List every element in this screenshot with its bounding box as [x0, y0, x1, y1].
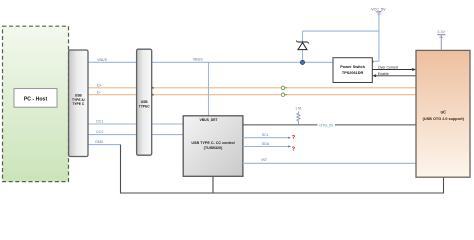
- resistor R1 1M pull-up on OTG_ID: [295, 107, 301, 125]
- net tie circle on D+: [281, 86, 287, 89]
- unresolved mark ? on SCL: [292, 135, 295, 141]
- label VBUS (left): [97, 58, 108, 62]
- svg-text:?: ?: [292, 147, 295, 153]
- uC block (USB OTG 2.0 support): [416, 50, 470, 177]
- svg-text:CC1: CC1: [96, 120, 103, 124]
- label VBUS (right): [193, 58, 204, 62]
- svg-text:(TUSB320): (TUSB320): [204, 146, 223, 150]
- net tie circle on D-: [281, 93, 287, 96]
- power symbol VCC_5V: [371, 7, 386, 61]
- label CC1: [96, 120, 103, 124]
- svg-text:GND: GND: [95, 140, 104, 144]
- wire CC2 (connector2 to TUSB320): [152, 134, 184, 136]
- label D-: [97, 90, 102, 94]
- PC - Host box: [14, 89, 57, 108]
- unresolved mark ? on SDA: [292, 147, 295, 153]
- svg-text:PC - Host: PC - Host: [24, 96, 48, 102]
- svg-text:INT: INT: [262, 158, 269, 162]
- svg-text:TYPEC: TYPEC: [139, 104, 151, 108]
- label D+: [97, 83, 102, 87]
- wire GND horizontal: [88, 144, 121, 146]
- svg-text:VBUS: VBUS: [193, 58, 204, 62]
- svg-text:SDA: SDA: [262, 142, 270, 146]
- label CC2: [96, 130, 103, 134]
- wire INT: [243, 158, 416, 163]
- wire VCC_5V branch to diode: [303, 31, 379, 62]
- pin nub D- at connector J2: [152, 94, 154, 96]
- svg-text:Over Current: Over Current: [378, 66, 398, 70]
- wire OTG_ID: [243, 122, 416, 128]
- svg-text:uC: uC: [441, 110, 447, 115]
- wire CC1: [88, 123, 137, 125]
- wire VBUS_DET vertical drop: [208, 62, 210, 116]
- svg-text:Power Switch: Power Switch: [340, 65, 365, 69]
- label GND: [95, 140, 104, 144]
- power symbol 3.3V: [437, 30, 445, 50]
- pin nub D+ at connector J2: [152, 87, 154, 89]
- svg-text:1 M: 1 M: [295, 107, 301, 111]
- svg-text:VCC_5V: VCC_5V: [371, 7, 386, 11]
- wire D-: [88, 94, 416, 96]
- diode D1 (schottky, VBUS to VCC_5V): [296, 41, 309, 50]
- wire CC1 (connector2 to TUSB320): [152, 123, 184, 125]
- PC Host enclosure (dashed green block): [3, 26, 69, 181]
- wire SDA with arrow: [243, 142, 291, 148]
- svg-text:VBUS: VBUS: [97, 58, 108, 62]
- svg-text:D+: D+: [97, 83, 102, 87]
- svg-text:(USB OTG 2.0 support): (USB OTG 2.0 support): [423, 117, 465, 121]
- svg-text:TPS2061DR: TPS2061DR: [342, 71, 364, 75]
- connector J1 USB TYPE A / TYPE C: [69, 50, 88, 157]
- svg-text:OTG_ID: OTG_ID: [319, 123, 333, 127]
- svg-text:TYPE C: TYPE C: [72, 102, 85, 106]
- svg-text:3.3V: 3.3V: [437, 30, 445, 34]
- svg-text:Enable: Enable: [378, 72, 389, 76]
- wire Over Current (to uC, arrow right): [372, 66, 416, 71]
- svg-text:D-: D-: [97, 90, 102, 94]
- svg-text:USB TYPE C- CC control: USB TYPE C- CC control: [191, 141, 234, 145]
- pin nub power switch VCC: [372, 61, 374, 63]
- wire GND bus (down, across bottom, up to uC): [121, 145, 444, 193]
- wire SCL with arrow: [243, 133, 291, 139]
- IC U1 TUSB320 (USB Type-C CC control): [183, 116, 243, 177]
- connector J2 USB TYPEC: [137, 49, 152, 155]
- wire CC2: [88, 134, 137, 136]
- wire D+: [88, 87, 416, 89]
- power switch U2 TPS2061DR: [333, 58, 372, 83]
- svg-text:?: ?: [292, 135, 295, 141]
- wire Enable (from uC, arrow left): [372, 72, 416, 77]
- svg-text:CC2: CC2: [96, 130, 103, 134]
- junction node VBUS / diode: [300, 60, 304, 64]
- wire VBUS (box1 to power switch): [88, 61, 333, 63]
- svg-text:SCL: SCL: [262, 133, 269, 137]
- svg-text:VBUS_DET: VBUS_DET: [199, 118, 218, 122]
- wire TUSB320 ground stub: [212, 176, 214, 193]
